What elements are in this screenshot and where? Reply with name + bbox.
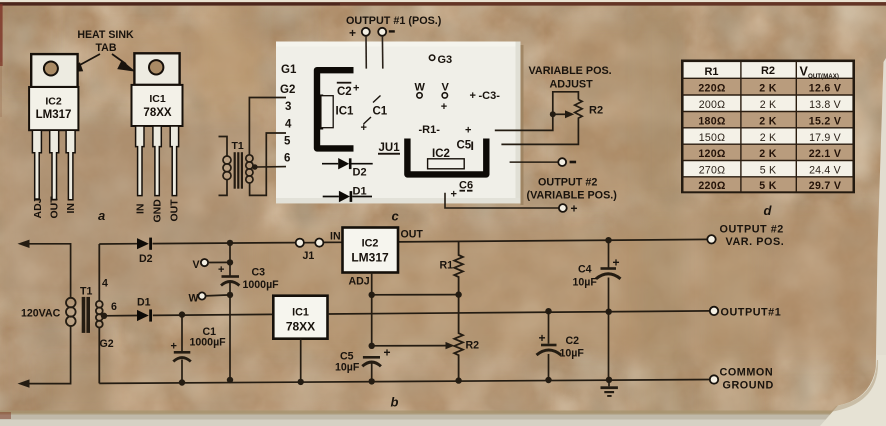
table frame (682, 61, 853, 192)
regulator IC2 LM317 box (343, 228, 399, 273)
page top edge (0, 0, 886, 6)
svg-text:OUTPUT #1 (POS.): OUTPUT #1 (POS.) (346, 15, 442, 27)
svg-text:150Ω: 150Ω (699, 132, 725, 144)
svg-text:ADJ: ADJ (349, 276, 370, 288)
label JU1 jumper (378, 142, 400, 155)
svg-text:G3: G3 (438, 54, 453, 66)
svg-text:D1: D1 (353, 186, 367, 198)
shaded row 120/2K (684, 144, 853, 160)
svg-text:4: 4 (285, 119, 292, 131)
svg-text:17.9 V: 17.9 V (809, 132, 842, 144)
transformer T1 secondary coil (96, 244, 103, 383)
svg-text:OUT(MAX): OUT(MAX) (808, 73, 839, 80)
center tap junction (101, 313, 107, 319)
svg-text:GND: GND (152, 199, 164, 223)
svg-text:IC2: IC2 (432, 148, 450, 160)
primary circuit wire with arrows (26, 244, 71, 384)
svg-text:D2: D2 (353, 167, 367, 179)
output #2 terminal (707, 224, 784, 249)
svg-text:+: + (384, 346, 391, 360)
pcb panel (276, 42, 524, 206)
arrowhead bottom-left (18, 379, 30, 387)
mid rail from IC1 to output1 terminal (328, 311, 711, 314)
ground symbol (601, 386, 618, 397)
svg-text:d: d (764, 203, 773, 218)
diode D1 on board (323, 186, 372, 203)
svg-text:6: 6 (284, 153, 290, 165)
page right curved edge (white sliver) (820, 58, 886, 426)
svg-text:c: c (392, 209, 400, 224)
svg-text:G2: G2 (100, 338, 114, 350)
W test point (189, 292, 231, 304)
potentiometer R2 (454, 295, 479, 381)
svg-text:C2: C2 (566, 335, 580, 347)
svg-text:5 K: 5 K (759, 180, 776, 192)
svg-text:+: + (441, 101, 447, 113)
svg-text:LM317: LM317 (36, 109, 72, 121)
mid rail wire from center tap to IC1 (104, 314, 273, 315)
svg-text:22.1 V: 22.1 V (809, 148, 841, 160)
svg-text:15.2 V: 15.2 V (809, 116, 841, 128)
svg-text:W: W (189, 293, 199, 305)
page bottom edge strip (0, 411, 886, 426)
svg-text:G2: G2 (280, 84, 295, 96)
potentiometer R2 (board hookup) (501, 92, 582, 145)
svg-text:D2: D2 (139, 253, 153, 265)
regulator IC1 78XX box (273, 296, 327, 339)
arrow to IC2 tab (66, 54, 100, 72)
terminal + of output1 (349, 26, 370, 40)
C3 branch wire (229, 243, 231, 380)
svg-text:OUT: OUT (49, 196, 61, 219)
IC1 legs (136, 126, 179, 196)
C1 branch wire (181, 315, 183, 383)
table row 2 (699, 99, 842, 111)
C2 branch wire (548, 311, 550, 380)
label C1 on board with leader dashes and + (361, 96, 388, 135)
svg-text:IN: IN (330, 231, 341, 243)
svg-text:13.8 V: 13.8 V (809, 99, 842, 111)
svg-text:HEAT SINK: HEAT SINK (77, 29, 134, 41)
V test point (193, 259, 231, 271)
regulator package IC2 LM317 (29, 54, 78, 130)
table header R1 R2 Vout(max) (704, 65, 838, 81)
svg-text:J1: J1 (303, 250, 315, 262)
svg-text:R2: R2 (466, 340, 480, 352)
svg-text:24.4 V: 24.4 V (809, 165, 842, 177)
bottom ground rail wire (99, 380, 710, 384)
svg-text:C3: C3 (252, 267, 266, 279)
positive terminal wire from C6 (445, 193, 578, 216)
svg-text:JU1: JU1 (379, 142, 401, 154)
label HEAT SINK TAB (77, 29, 134, 54)
svg-text:C2: C2 (337, 86, 352, 98)
svg-text:IC2: IC2 (45, 96, 62, 108)
svg-text:VAR. POS.: VAR. POS. (726, 236, 785, 248)
svg-text:IN: IN (65, 203, 77, 214)
capacitor C2 (537, 331, 585, 360)
svg-text:200Ω: 200Ω (699, 99, 725, 111)
junction dots on C1 branch (179, 311, 185, 385)
svg-text:C6: C6 (459, 180, 473, 192)
svg-text:OUTPUT#1: OUTPUT#1 (721, 307, 782, 319)
label C6 with polarity (451, 180, 474, 201)
svg-text:TAB: TAB (96, 42, 117, 54)
pad W (415, 82, 426, 99)
svg-text:ADJ: ADJ (32, 197, 44, 218)
svg-text:220Ω: 220Ω (698, 180, 726, 192)
svg-text:29.7 V: 29.7 V (809, 180, 841, 192)
svg-text:12.6 V: 12.6 V (809, 83, 841, 95)
capacitor C5 (335, 346, 391, 374)
junction dot C5 bottom rail (369, 378, 375, 384)
svg-text:+: + (465, 125, 471, 137)
pad V with + (441, 82, 450, 114)
arrow to IC1 tab (112, 54, 133, 71)
IC1 ground lead (298, 339, 304, 385)
label C2 (overbar) + (337, 82, 360, 98)
svg-text:IC1: IC1 (149, 93, 166, 105)
svg-text:OUTPUT #2: OUTPUT #2 (538, 177, 597, 189)
svg-text:W: W (415, 82, 426, 94)
table row 1 (698, 83, 841, 95)
junction dots on C2 branch (545, 308, 551, 383)
negative terminal of output2 (510, 158, 576, 166)
svg-text:V: V (442, 82, 450, 94)
capacitor C1 (171, 326, 227, 362)
svg-text:2 K: 2 K (759, 148, 776, 160)
svg-text:b: b (391, 395, 399, 410)
IC1 pin labels IN GND OUT (135, 199, 181, 223)
svg-text:+: + (539, 331, 546, 345)
terminal - of output1 (378, 28, 395, 36)
svg-text:120VAC: 120VAC (21, 308, 61, 320)
IC2 legs (32, 130, 75, 200)
svg-text:IN: IN (135, 204, 147, 215)
top rail wire (99, 239, 707, 244)
pad G3 (429, 54, 452, 66)
svg-text:78XX: 78XX (143, 107, 171, 119)
T1 layout secondary winding (246, 98, 286, 196)
table row 6 (699, 165, 842, 177)
page left red edge (0, 4, 3, 117)
svg-text:5: 5 (284, 136, 291, 148)
T1 layout core (234, 152, 243, 189)
IC1 body on board (317, 95, 334, 130)
table row 4 (699, 132, 842, 144)
svg-text:4: 4 (102, 278, 108, 290)
svg-text:+: + (361, 122, 367, 134)
heat sink bracket for IC2 on board (407, 139, 486, 175)
svg-text:R2: R2 (589, 105, 603, 117)
svg-text:6: 6 (111, 301, 117, 313)
label C3 polarity (470, 90, 501, 102)
svg-text:VARIABLE POS.: VARIABLE POS. (529, 65, 612, 77)
shaded row 220/5K (684, 177, 853, 192)
svg-text:-C3-: -C3- (479, 90, 501, 102)
svg-text:GROUND: GROUND (723, 380, 774, 392)
T1 center-tap junction to pad 6 (252, 164, 286, 170)
svg-text:+: + (218, 264, 224, 276)
svg-text:C4: C4 (578, 264, 592, 276)
junction dot R2 bottom (455, 377, 461, 383)
wiper wire to R2 with arrow (372, 342, 455, 349)
wire leads from output1 terminals into board (366, 36, 383, 69)
junction dots on C3 branch (227, 240, 233, 383)
table row 3 (698, 116, 841, 128)
wire ADJ to R1/R2 junction (372, 294, 459, 296)
svg-text:5 K: 5 K (760, 165, 777, 177)
transformer T1 primary coil (66, 298, 76, 326)
svg-text:IC1: IC1 (292, 307, 309, 319)
ADJ wire down from IC2 (371, 273, 373, 382)
svg-text:+: + (349, 26, 356, 40)
ADJ node junction (369, 292, 375, 298)
svg-text:+: + (571, 202, 578, 216)
junction dot R1 bottom / ADJ (455, 291, 461, 297)
svg-text:V: V (193, 259, 200, 271)
svg-text:G1: G1 (281, 64, 297, 76)
svg-text:10µF: 10µF (335, 362, 360, 374)
capacitor C3 (218, 264, 279, 291)
table grid lines (682, 61, 853, 192)
svg-text:R1: R1 (704, 66, 718, 78)
svg-text:R2: R2 (761, 65, 775, 77)
transformer T1 core (82, 297, 90, 333)
svg-text:3: 3 (285, 101, 291, 113)
T1 layout primary winding (219, 137, 232, 196)
svg-text:COMMON: COMMON (720, 367, 774, 379)
svg-text:+: + (451, 189, 457, 201)
svg-text:a: a (98, 208, 105, 223)
svg-text:T1: T1 (80, 286, 92, 298)
common ground terminal (710, 367, 774, 392)
junction dot C5 top / wiper (369, 343, 375, 349)
svg-text:T1: T1 (232, 140, 244, 152)
label VARIABLE POS. ADJUST (529, 65, 612, 91)
table row 5 (698, 148, 841, 160)
svg-text:270Ω: 270Ω (699, 165, 725, 177)
svg-text:+: + (353, 83, 359, 95)
svg-text:180Ω: 180Ω (698, 116, 726, 128)
svg-text:IC2: IC2 (362, 238, 379, 250)
svg-text:C1: C1 (373, 106, 388, 118)
svg-text:2 K: 2 K (759, 83, 776, 95)
svg-text:1000µF: 1000µF (243, 279, 280, 291)
shaded row 220/2K (684, 78, 853, 95)
arrowhead top-left (18, 240, 30, 248)
svg-text:10µF: 10µF (573, 277, 598, 289)
svg-text:OUTPUT #2: OUTPUT #2 (720, 224, 784, 236)
pad labels G1 G2 3 4 5 6 (280, 64, 297, 165)
heat sink bracket for IC1 on board (317, 70, 354, 148)
svg-text:+: + (470, 90, 476, 102)
jumper J1 (296, 239, 324, 263)
diode D2 on board (322, 158, 373, 179)
label C5 on board (457, 140, 474, 152)
svg-text:(VARIABLE POS.): (VARIABLE POS.) (527, 190, 618, 202)
shaded row 180/2K (684, 112, 853, 128)
svg-text:2 K: 2 K (760, 132, 777, 144)
svg-text:C5: C5 (457, 140, 472, 152)
svg-text:LM317: LM317 (351, 251, 389, 265)
R2 wiper arrow and junction (495, 110, 575, 130)
svg-text:D1: D1 (137, 297, 151, 309)
diode D1 (137, 297, 152, 322)
label R1 on board (419, 124, 472, 137)
svg-text:+: + (613, 256, 620, 270)
IC2 body on board (428, 159, 465, 169)
capacitor C4 (573, 256, 621, 289)
svg-text:220Ω: 220Ω (698, 83, 726, 95)
IC2 pin labels ADJ OUT IN (32, 196, 77, 219)
svg-text:OUT: OUT (401, 229, 424, 241)
svg-text:120Ω: 120Ω (698, 148, 726, 160)
svg-text:1000µF: 1000µF (190, 337, 227, 349)
svg-text:IC1: IC1 (336, 106, 355, 118)
svg-text:ADJUST: ADJUST (550, 79, 594, 91)
junction dots on C4 branch (605, 237, 612, 383)
table row 7 (698, 180, 841, 192)
svg-text:2 K: 2 K (759, 116, 776, 128)
svg-text:78XX: 78XX (286, 320, 315, 334)
svg-text:-R1-: -R1- (419, 124, 441, 136)
svg-text:2 K: 2 K (760, 99, 777, 111)
regulator package IC1 78XX (132, 53, 183, 126)
svg-text:R1: R1 (440, 260, 454, 272)
svg-text:10µF: 10µF (560, 348, 585, 360)
label OUTPUT #2 (VARIABLE POS.) (527, 177, 618, 202)
diode D2 (137, 238, 153, 265)
svg-text:+: + (171, 341, 177, 353)
resistor R1 (440, 241, 463, 295)
C4 branch wire (608, 240, 611, 386)
output #1 terminal (710, 307, 781, 319)
svg-text:OUT: OUT (169, 199, 181, 222)
